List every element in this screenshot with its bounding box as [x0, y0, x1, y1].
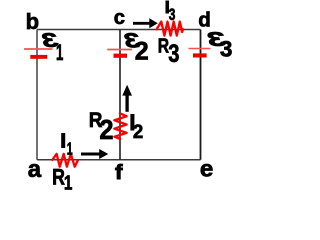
label E2 [124, 29, 148, 65]
resistor R1 zigzag [52, 154, 78, 167]
svg-text:R: R [158, 35, 169, 57]
svg-text:2: 2 [133, 122, 143, 144]
node b [26, 9, 39, 34]
svg-text:I: I [60, 131, 66, 153]
resistor R3 zigzag [157, 22, 183, 36]
svg-text:R: R [52, 166, 65, 190]
label E1 (script epsilon + subscript 1) [42, 30, 63, 65]
current arrow I1 [81, 149, 108, 159]
node c [114, 7, 125, 29]
node a [28, 156, 42, 183]
node e [200, 156, 213, 181]
wire middle c-f [119, 30, 121, 160]
node d [198, 9, 211, 32]
svg-text:c: c [114, 7, 125, 29]
wire left b-a [36, 30, 38, 160]
svg-text:a: a [28, 156, 42, 183]
svg-text:b: b [26, 9, 39, 34]
svg-text:3: 3 [220, 36, 233, 61]
svg-text:f: f [115, 160, 123, 184]
battery EMF source E1 (long thin plate + short thick plate) [24, 49, 53, 59]
label I2 [129, 110, 143, 143]
resistor R2 zigzag [114, 113, 126, 138]
battery EMF source E3 [189, 49, 211, 58]
svg-text:1: 1 [64, 171, 73, 194]
svg-text:2: 2 [99, 114, 113, 145]
svg-text:3: 3 [169, 6, 176, 24]
battery EMF source E2 [107, 50, 132, 58]
label R2 [89, 109, 114, 145]
current arrow I3 [133, 18, 158, 28]
svg-text:e: e [200, 156, 213, 181]
label I3 [165, 0, 175, 25]
label R1 [52, 166, 72, 194]
label E3 [207, 28, 232, 62]
node f [115, 160, 123, 184]
svg-text:1: 1 [56, 40, 63, 64]
svg-text:2: 2 [135, 38, 149, 66]
svg-text:3: 3 [168, 39, 179, 68]
svg-text:1: 1 [67, 140, 73, 159]
label R3 [158, 35, 180, 68]
wire bottom a-f-e [37, 159, 201, 161]
wire right d-e [200, 30, 202, 160]
current arrow I2 [122, 85, 132, 112]
label I1 [60, 131, 72, 160]
wire top b-c-d [37, 29, 201, 31]
